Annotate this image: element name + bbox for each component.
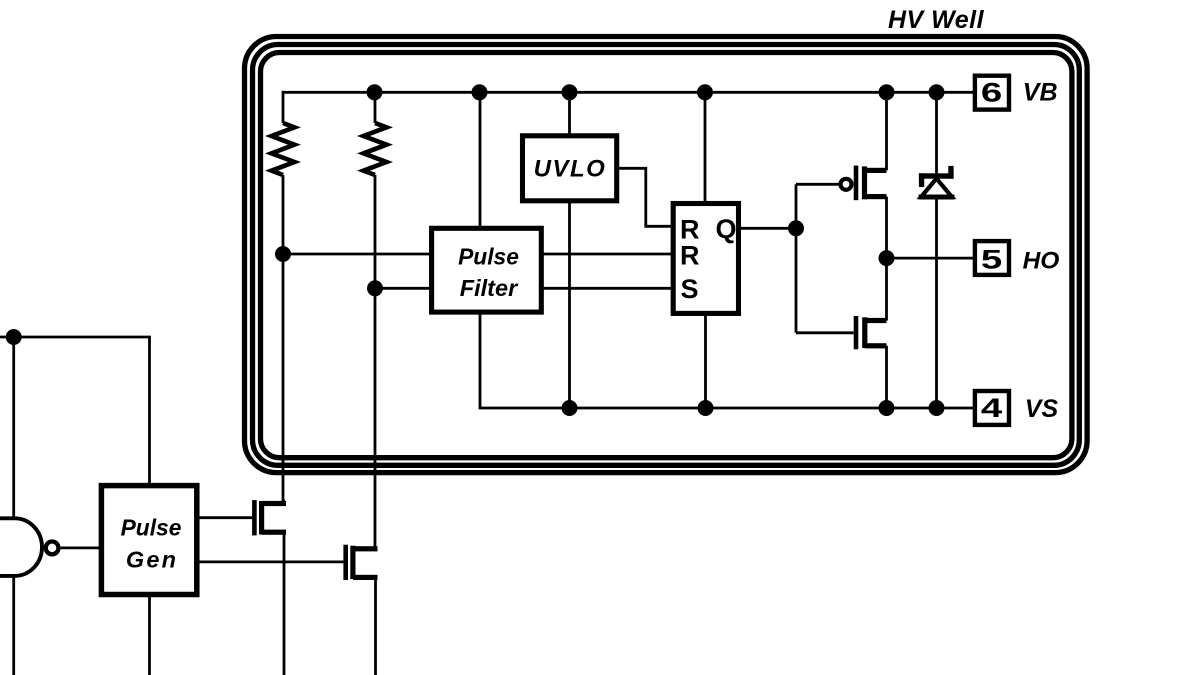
svg-text:Gen: Gen (126, 546, 178, 572)
svg-text:S: S (681, 274, 699, 304)
svg-text:6: 6 (981, 77, 1002, 107)
svg-text:UVLO: UVLO (534, 156, 607, 183)
svg-text:Pulse: Pulse (458, 244, 519, 270)
svg-text:Pulse: Pulse (121, 514, 182, 540)
svg-text:5: 5 (981, 244, 1002, 274)
svg-text:Filter: Filter (460, 275, 519, 301)
svg-text:4: 4 (981, 393, 1003, 423)
svg-text:R: R (680, 241, 700, 271)
svg-text:VS: VS (1025, 395, 1059, 423)
svg-text:HV Well: HV Well (888, 6, 985, 34)
svg-text:HO: HO (1023, 248, 1060, 275)
svg-text:VB: VB (1023, 78, 1058, 106)
svg-text:Q: Q (716, 214, 737, 244)
